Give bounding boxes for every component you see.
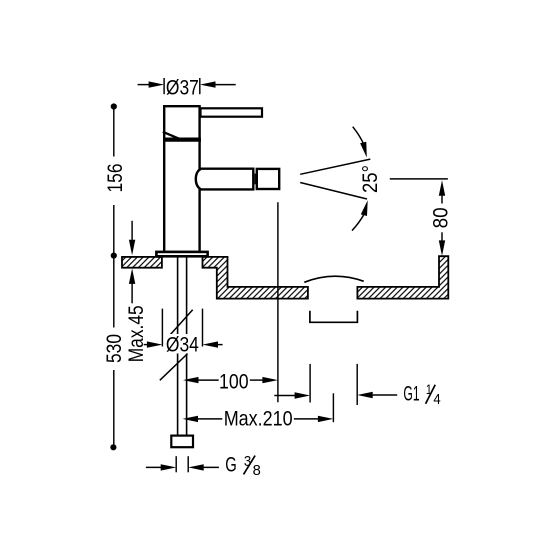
lever handle bar xyxy=(201,108,263,116)
pipe break slash upper xyxy=(169,310,193,337)
svg-text:530: 530 xyxy=(103,334,126,363)
extension line aerator outlet xyxy=(277,202,279,402)
dim 156 xyxy=(104,103,127,258)
dim Ø34 xyxy=(144,309,223,357)
G3/8 connector block xyxy=(171,436,193,448)
svg-text:156: 156 xyxy=(104,164,127,193)
supply pipe xyxy=(177,257,179,436)
spout xyxy=(196,169,254,190)
dim Max.210 xyxy=(183,393,334,430)
dim G1 1/4 drain xyxy=(274,364,440,408)
svg-text:80: 80 xyxy=(429,207,452,228)
svg-text:25°: 25° xyxy=(359,165,382,193)
aerator joint tick xyxy=(254,174,256,185)
svg-text:G1: G1 xyxy=(403,383,419,406)
svg-text:4: 4 xyxy=(433,391,440,408)
ceramic deck left strip xyxy=(122,257,162,268)
aerator xyxy=(257,169,279,189)
ceramic deck right step xyxy=(203,257,308,299)
bowl water arc xyxy=(304,276,363,282)
svg-text:Max.45: Max.45 xyxy=(125,305,148,362)
cap joint thick line xyxy=(163,138,201,142)
dim 100 xyxy=(183,371,278,394)
dim G 3/8 xyxy=(146,453,261,479)
svg-text:8: 8 xyxy=(253,462,261,479)
dim Max.45 xyxy=(125,221,148,362)
dim 25 degrees xyxy=(300,127,382,231)
svg-text:100: 100 xyxy=(219,371,249,394)
svg-text:Max.210: Max.210 xyxy=(224,407,293,430)
ceramic right strip with lip xyxy=(357,256,448,298)
dim 80 xyxy=(390,179,453,256)
base flange xyxy=(156,252,207,256)
svg-text:Ø34: Ø34 xyxy=(166,333,199,356)
svg-text:Ø37: Ø37 xyxy=(166,76,199,99)
handle skirt diagonal xyxy=(163,132,181,140)
pipe break slash lower xyxy=(160,354,188,381)
dim 530 xyxy=(103,256,126,451)
faucet body xyxy=(164,106,199,252)
dim Ø37 xyxy=(138,76,236,99)
drain cup xyxy=(310,311,358,323)
svg-text:G: G xyxy=(225,454,237,477)
